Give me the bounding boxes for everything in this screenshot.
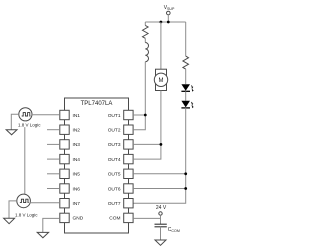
svg-text:OUT2: OUT2 bbox=[108, 128, 121, 134]
svg-text:OUT6: OUT6 bbox=[108, 186, 121, 192]
junction dot VSUP on bus bbox=[167, 21, 170, 24]
VSUP terminal circle bbox=[167, 11, 171, 15]
pin OUT1 square bbox=[124, 110, 133, 119]
pin COM square bbox=[124, 213, 133, 222]
svg-text:IN6: IN6 bbox=[73, 186, 81, 192]
stub IN2 bbox=[47, 129, 60, 131]
node 24V label bbox=[156, 205, 167, 211]
svg-text:OUT5: OUT5 bbox=[108, 172, 121, 178]
ground source V2 bbox=[4, 218, 15, 224]
wire LED D1 to LED D2 bbox=[185, 91, 187, 101]
svg-text:M: M bbox=[159, 78, 164, 84]
stub IN6 bbox=[47, 188, 60, 190]
pin OUT4 square bbox=[124, 154, 133, 163]
ground CCOM bbox=[155, 240, 166, 245]
node VSUP label bbox=[164, 5, 175, 11]
wire bus to relay resistor bbox=[144, 22, 146, 25]
wire VSUP terminal to top bus bbox=[167, 15, 169, 22]
wire resistor to LED D1 bbox=[185, 69, 187, 84]
LED D1 bbox=[181, 84, 193, 92]
pin GND square bbox=[60, 213, 69, 222]
junction dot motor branch on bus bbox=[160, 21, 163, 24]
pin IN7 square bbox=[60, 199, 69, 208]
pulse source V1 1.8V logic bbox=[19, 108, 32, 121]
svg-text:COM: COM bbox=[109, 216, 120, 222]
24V terminal circle bbox=[159, 212, 162, 215]
label 1.8 V Logic (V2) bbox=[15, 212, 39, 218]
pin IN3 square bbox=[60, 140, 69, 149]
svg-text:IN5: IN5 bbox=[73, 172, 81, 178]
junction B dot OUT3/OUT4/motor bbox=[160, 143, 163, 146]
svg-text:TPL7407LA: TPL7407LA bbox=[81, 101, 113, 107]
stub IN4 bbox=[47, 158, 60, 160]
wire OUT4 up to junction B bbox=[133, 144, 161, 159]
stub IN3 bbox=[47, 143, 60, 145]
pin IN5 square bbox=[60, 169, 69, 178]
wire OUT3 to junction B bbox=[133, 143, 161, 145]
pin OUT7 square bbox=[124, 199, 133, 208]
wire motor to OUT3 junction bbox=[160, 91, 162, 145]
wire GND pin to ground bbox=[43, 218, 60, 232]
wire source1 to ground bbox=[11, 114, 18, 130]
wire OUT5 to LED branch bbox=[133, 173, 186, 175]
wire inductor to OUT1 junction bbox=[144, 62, 146, 115]
svg-text:IN4: IN4 bbox=[73, 157, 81, 163]
stub IN5 bbox=[47, 173, 60, 175]
pin OUT3 square bbox=[124, 140, 133, 149]
svg-text:24 V: 24 V bbox=[156, 205, 167, 211]
wire OUT2 up to junction A bbox=[133, 115, 145, 130]
pin IN6 square bbox=[60, 184, 69, 193]
wire source1 to IN1 bbox=[32, 114, 60, 116]
wire resistor to inductor bbox=[144, 38, 146, 42]
pin IN1 square bbox=[60, 110, 69, 119]
wire series link source1 to source2 bbox=[24, 121, 26, 195]
label 1.8 V Logic (V1) bbox=[18, 122, 42, 128]
svg-text:IN1: IN1 bbox=[73, 113, 81, 119]
wire OUT1 to junction A bbox=[133, 114, 145, 116]
motor M body rect bbox=[156, 69, 167, 90]
ground source V1 bbox=[6, 130, 17, 135]
junction dot OUT6/LED branch bbox=[184, 187, 187, 190]
wire bus to motor bbox=[160, 22, 162, 69]
wire source2 to ground bbox=[9, 201, 17, 218]
pin OUT6 square bbox=[124, 184, 133, 193]
svg-text:OUT3: OUT3 bbox=[108, 142, 121, 148]
inductor relay coil L bbox=[145, 42, 148, 61]
svg-text:OUT1: OUT1 bbox=[108, 113, 121, 119]
svg-text:1.8 V Logic: 1.8 V Logic bbox=[15, 212, 38, 217]
svg-text:1.8 V Logic: 1.8 V Logic bbox=[18, 122, 41, 127]
svg-text:OUT7: OUT7 bbox=[108, 201, 121, 207]
capacitor CCOM bbox=[155, 224, 180, 233]
pin OUT5 square bbox=[124, 169, 133, 178]
pin OUT2 square bbox=[124, 125, 133, 134]
junction A dot OUT1/OUT2/relay bbox=[144, 114, 147, 117]
wire LED D2 down to OUT5 junction and OUT7 corner bbox=[133, 108, 186, 203]
wire 24V terminal down to capacitor bbox=[160, 215, 162, 224]
wire OUT6 to LED branch bbox=[133, 188, 186, 190]
svg-text:OUT4: OUT4 bbox=[108, 157, 121, 163]
IC U1 TPL7407LA body bbox=[65, 98, 129, 233]
pin IN2 square bbox=[60, 125, 69, 134]
svg-text:IN2: IN2 bbox=[73, 128, 81, 134]
wire source2 to IN7 bbox=[30, 202, 60, 204]
wire top supply bus bbox=[145, 21, 185, 23]
ground GND pin bbox=[37, 232, 48, 237]
wire bus corner to LED resistor bbox=[185, 22, 187, 56]
pin IN4 square bbox=[60, 154, 69, 163]
motor M circle bbox=[154, 73, 167, 86]
junction dot OUT5/LED branch bbox=[184, 172, 187, 175]
resistor LED series R bbox=[183, 56, 189, 69]
svg-text:IN3: IN3 bbox=[73, 142, 81, 148]
pulse source V2 1.8V logic bbox=[17, 194, 31, 208]
resistor relay coil R bbox=[143, 25, 149, 38]
svg-text:GND: GND bbox=[73, 216, 84, 222]
svg-text:IN7: IN7 bbox=[73, 201, 81, 207]
wire capacitor to ground bbox=[160, 227, 162, 240]
LED D2 bbox=[181, 101, 193, 109]
wire COM to 24V node bbox=[133, 217, 160, 219]
